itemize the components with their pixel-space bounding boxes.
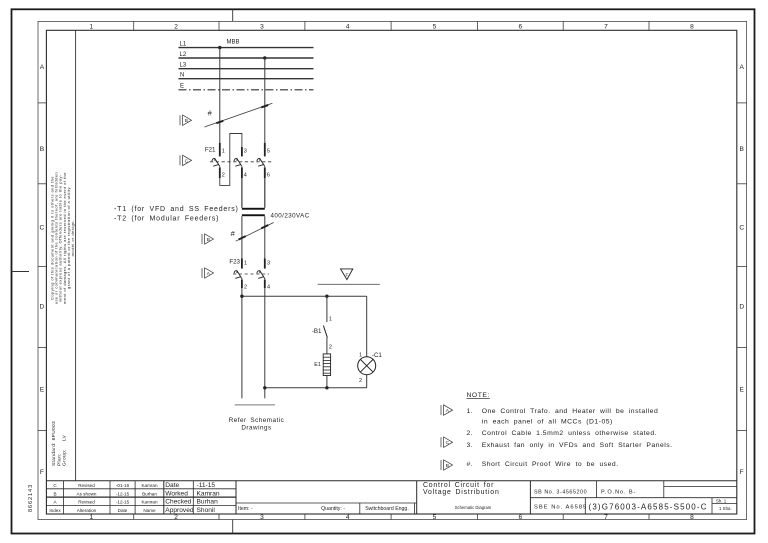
svg-text:-T2 (for Modular Feeders): -T2 (for Modular Feeders) [114,216,219,223]
svg-text:3: 3 [244,149,247,155]
svg-text:C: C [185,158,189,164]
svg-text:1: 1 [244,261,247,267]
fold mark top [232,9,234,21]
svg-text:5: 5 [267,149,270,155]
svg-text:Approved: Approved [165,507,194,514]
SB / P.O. row [530,497,736,499]
svg-text:Control Circuit for: Control Circuit for [423,482,494,489]
potential reference triangle [341,269,353,280]
svg-text:7: 7 [604,514,608,521]
svg-text:6: 6 [518,514,522,521]
wire-type annotation line (top) [204,103,272,127]
heater E1 body [323,354,330,376]
svg-text:2.: 2. [467,430,474,437]
svg-text:B: B [185,118,188,124]
svg-text:Refer Schematic: Refer Schematic [229,417,285,424]
wire transformer secondary right down [264,216,266,258]
svg-text:3: 3 [260,24,264,31]
svg-text:Date: Date [118,508,128,513]
svg-text:-C1: -C1 [372,352,383,359]
svg-text:in each panel of all MCCs (D1-: in each panel of all MCCs (D1-05) [482,419,613,426]
svg-text:2: 2 [174,514,178,521]
wire F23 pin4 down [264,288,266,398]
svg-text:SBE No. A6585: SBE No. A6585 [534,505,587,511]
svg-text:Schematic Diagram: Schematic Diagram [455,505,492,510]
svg-text:Kamran: Kamran [141,500,158,505]
svg-text:B: B [739,146,744,153]
switch B1 lever [323,326,327,338]
svg-text:Burhan: Burhan [197,499,219,506]
svg-text:8: 8 [690,24,694,31]
svg-text:Control Cable 1.5mm2 unless ot: Control Cable 1.5mm2 unless otherwise st… [482,430,657,437]
svg-text:4: 4 [267,285,270,291]
left ruler zone letters [40,64,45,476]
control branch top wire [242,295,367,297]
svg-text:-01-16: -01-16 [116,483,130,488]
right ruler ticks [737,103,747,431]
revision table texts [49,483,158,513]
note flag triangle B (note 4) [441,460,453,470]
svg-text:Date: Date [165,482,179,489]
lamp C1 cross [361,360,373,372]
svg-text:1: 1 [222,149,225,155]
svg-text:1: 1 [329,317,332,323]
svg-text:L2: L2 [180,52,187,58]
svg-text:Drawings: Drawings [241,425,271,432]
svg-text:Shonil: Shonil [197,507,216,514]
svg-text:-11-15: -11-15 [197,482,216,489]
busbar L1 [179,47,314,49]
note flag triangle B (transformer) [202,234,214,244]
svg-text:Voltage Distribution: Voltage Distribution [423,489,500,496]
svg-text:6: 6 [267,173,270,179]
transformer T1/T2 primary bar [242,208,265,210]
svg-text:Switchboard Engg.: Switchboard Engg. [365,506,409,512]
svg-text:1: 1 [359,353,362,359]
svg-text:1: 1 [89,24,93,31]
SBE / drawing number row [584,498,586,514]
top ruler zone numbers [89,24,694,31]
note flag triangle A (F23) [202,268,214,278]
wire transformer secondary left down [241,216,243,258]
busbar N [179,78,314,80]
note flag triangle C [180,155,192,165]
svg-text:Quantity: -: Quantity: - [321,506,345,512]
svg-text:C: C [40,225,45,232]
F21 contact pole2 [234,158,242,166]
svg-text:Group:: Group: [62,449,68,466]
svg-text:-B1: -B1 [312,328,322,335]
svg-text:E1: E1 [314,362,321,368]
svg-text:L1: L1 [180,41,187,47]
F21 contact pole1 [212,158,220,166]
svg-text:-12-15: -12-15 [116,491,130,496]
svg-text:MBB: MBB [227,39,240,45]
svg-text:5: 5 [433,514,437,521]
svg-text:1.: 1. [467,408,474,415]
svg-text:Kamran: Kamran [141,483,158,488]
svg-text:B: B [40,146,45,153]
svg-text:1: 1 [89,514,93,521]
control branch bottom wire [265,387,367,389]
svg-text:Checked: Checked [165,499,191,506]
svg-text:Revised: Revised [78,500,95,505]
svg-text:F23: F23 [229,259,240,266]
node on L2 [263,56,266,59]
svg-text:3: 3 [267,261,270,267]
title block top line [46,480,736,482]
F21 pole 5-6 pins [264,143,266,157]
top ruler ticks [134,21,649,30]
svg-text:(3)G76003-A6585-S500-C: (3)G76003-A6585-S500-C [589,502,708,511]
item/quantity strip [236,502,417,504]
wire mark tick on L2 tap [261,105,268,107]
wire to lamp C1 [366,296,368,357]
svg-text:F: F [740,469,744,476]
wire B1 to heater E1 [326,338,328,354]
svg-text:3.: 3. [467,442,474,449]
svg-text:4: 4 [346,24,350,31]
svg-text:Short Circuit Proof Wire to be: Short Circuit Proof Wire to be used. [482,461,619,468]
busbar L2 [179,57,314,59]
left info strip divider [75,30,77,480]
svg-text:N: N [180,73,184,79]
svg-text:7: 7 [604,24,608,31]
svg-text:As shown: As shown [77,491,97,496]
revision table column lines [63,481,65,514]
wire mark tick right secondary [261,225,268,228]
svg-text:2: 2 [222,173,225,179]
svg-text:B: B [207,237,210,243]
heater E1 element bands [323,357,330,373]
node at heater branch / bottom wire [325,386,328,389]
wire L2 tap down to F21 pin5 [264,58,266,143]
F23 pole 3-4 pins [264,259,266,269]
lamp C1 body [358,357,376,375]
svg-text:-T1 (for VFD and SS Feeders): -T1 (for VFD and SS Feeders) [114,206,239,213]
svg-text:E: E [40,386,45,393]
wire lamp C1 to bottom [366,375,368,388]
bottom ruler ticks [134,514,649,520]
svg-text:B: B [446,463,449,469]
wire F21 pin6 to transformer [264,178,266,208]
F23 mechanical link (dash-dot) [233,273,269,275]
svg-text:8662143: 8662143 [28,484,34,512]
svg-text:Revised: Revised [78,483,95,488]
F21 contact pole3 [257,158,265,166]
svg-text:A: A [739,64,744,71]
svg-text:Name: Name [143,508,156,513]
fold mark bottom [232,520,234,534]
wire F23 pin2 down [241,288,243,398]
svg-text:1 Sha.: 1 Sha. [719,506,732,511]
note flag triangle B (top) [180,115,192,125]
note flag triangle C (note 3) [441,437,453,447]
F23 pole 1-2 pins [241,259,243,269]
wire L1 tap down to F21 pin1 [219,48,221,143]
svg-text:Index: Index [49,508,61,513]
revision table row lines [46,488,236,490]
svg-text:2: 2 [329,345,332,351]
svg-text:5: 5 [433,24,437,31]
svg-text:Kamran: Kamran [197,490,220,497]
bottom ruler zone numbers [89,514,694,521]
svg-text:-12-15: -12-15 [116,500,130,505]
svg-text:3: 3 [260,514,264,521]
voltage annotation line 400/230VAC [236,223,274,242]
F21 pole 1-2 pins [219,143,221,157]
svg-text:2: 2 [359,378,362,384]
copyright disclaimer (rotated) [50,172,76,304]
note flag triangle A (note 1) [441,405,453,415]
node at heater branch / top wire [325,295,328,298]
svg-text:4: 4 [346,514,350,521]
wire mark tick on L1 tap [216,121,223,123]
svg-text:model or design.: model or design. [70,220,75,257]
svg-text:Burhan: Burhan [142,491,157,496]
standard / plan / group block (rotated) [51,421,68,466]
svg-text:E: E [739,386,744,393]
F23 contact pole2 [257,271,265,279]
svg-text:F: F [345,272,348,277]
node on L1 [218,46,221,49]
svg-text:L3: L3 [180,63,187,69]
svg-text:Exhaust fan only in VFDs and S: Exhaust fan only in VFDs and Soft Starte… [482,442,673,449]
wire mark tick left secondary [239,236,246,239]
svg-text:E: E [180,84,184,90]
svg-text:2: 2 [244,285,247,291]
svg-text:C: C [739,225,744,232]
date/worked/checked/approved box [165,482,220,514]
svg-text:8: 8 [690,514,694,521]
svg-text:Alteration: Alteration [77,508,97,513]
svg-text:Worked: Worked [165,490,188,497]
svg-text:Sh. 1: Sh. 1 [716,498,727,503]
svg-text:A: A [40,64,45,71]
svg-text:6: 6 [518,24,522,31]
F21 pole 3-4 pins [241,147,243,156]
svg-text:#.: #. [467,461,474,468]
F23 contact pole1 [234,271,242,279]
svg-text:4: 4 [244,173,247,179]
right ruler zone letters [739,64,744,476]
svg-text:2: 2 [174,24,178,31]
svg-text:One Control Trafo. and Heater: One Control Trafo. and Heater will be in… [482,408,659,415]
wire E1 to bottom [326,376,328,388]
F21 mechanical link (dash-dot) [210,161,272,163]
svg-text:400/230VAC: 400/230VAC [271,213,310,220]
wire F21 pin4 to transformer [241,178,243,208]
wire to switch B1 [326,296,328,322]
svg-text:B: B [53,491,56,496]
busbar L3 [179,68,314,70]
svg-text:C: C [446,440,450,446]
svg-text:F: F [40,469,44,476]
svg-text:LV: LV [62,434,68,441]
fold mark left [12,271,30,273]
svg-text:Item: -: Item: - [238,506,253,512]
transformer T1/T2 secondary bar [242,214,265,216]
F21 series loop wire pin2 to pin3 [220,134,242,186]
potential reference line [318,283,380,285]
svg-text:Standard: 8PU003: Standard: 8PU003 [51,421,57,466]
svg-text:NOTE:: NOTE: [467,392,490,399]
svg-text:F21: F21 [205,147,216,154]
continuation separator [235,404,275,406]
left ruler ticks [38,103,46,431]
svg-text:D: D [40,303,45,310]
busbar E (dash-dot) [179,89,314,91]
svg-text:SB No. 3-4565200: SB No. 3-4565200 [534,489,587,495]
node at F23 pin2 / top wire [240,295,243,298]
svg-text:P.O.No. B-: P.O.No. B- [601,489,636,495]
control circuit title box [416,481,418,514]
node at F23 pin4 / bottom wire [263,386,266,389]
svg-text:D: D [739,303,744,310]
